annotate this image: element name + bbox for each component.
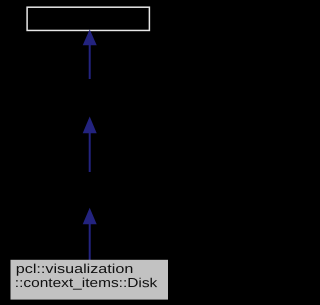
svg-text:pcl::visualization: pcl::visualization xyxy=(16,261,134,276)
svg-text:::context_items::Disk: ::context_items::Disk xyxy=(15,275,158,290)
node: top ancestor class (empty box) xyxy=(27,7,149,30)
arrowhead 1 xyxy=(83,29,97,45)
arrowhead 2 xyxy=(83,117,97,134)
arrowhead 3 xyxy=(83,208,97,225)
wire: inheritance arrow 2 shaft xyxy=(89,132,91,172)
node: current class (filled) xyxy=(11,260,169,300)
wire: inheritance arrow 3 shaft xyxy=(89,223,91,260)
inheritance graph: pcl::visualization::context_items::Disk xyxy=(0,0,179,305)
wire: inheritance arrow 1 shaft xyxy=(89,44,91,79)
